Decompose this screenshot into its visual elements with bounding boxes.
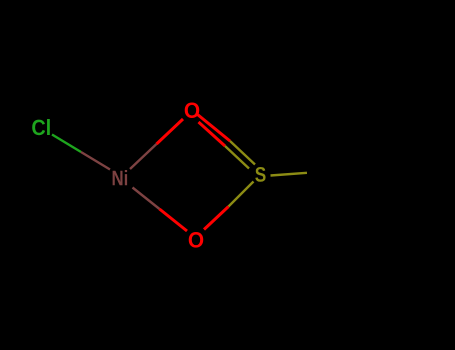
atom label O (bottom oxygen) (189, 232, 204, 248)
wire: double bond S=O(top) line B (S half, olive) (225, 146, 249, 169)
atom label S (sulfur) (255, 167, 265, 182)
wire: double bond S=O(top) line A (S half, olive) (230, 141, 255, 165)
wire: bond S-C(phenyl) (S half, olive) (271, 173, 308, 176)
wire: bond Cl-Ni (Cl half, green) (52, 135, 81, 153)
atom label Ni (nickel) (113, 170, 127, 185)
wire: double bond S=O(top) line A (O half, red) (198, 115, 231, 142)
wire: bond Ni-O(bottom) (O half, red) (160, 209, 188, 231)
atom label O (top oxygen) (185, 102, 200, 118)
atom label Cl (chlorine) (32, 119, 50, 135)
wire: bond S-C(phenyl) (C half, black, invisible on background) (307, 170, 343, 173)
wire: bond Ni-O(top) (Ni half, maroon) (130, 144, 157, 169)
wire: bond Cl-Ni (Ni half, maroon) (81, 152, 110, 170)
phenyl ring (carbon, black, invisible on background) (343, 149, 415, 233)
wire: bond S-O(bottom) (O half, red) (204, 207, 229, 230)
wire: bond Ni-O(bottom) (Ni half, maroon) (133, 188, 160, 210)
wire: bond S-O(bottom) (S half, olive) (229, 182, 254, 207)
wire: double bond S=O(top) line B (O half, red) (199, 122, 226, 146)
wire: bond Ni-O(top) (O half, red) (157, 119, 184, 144)
